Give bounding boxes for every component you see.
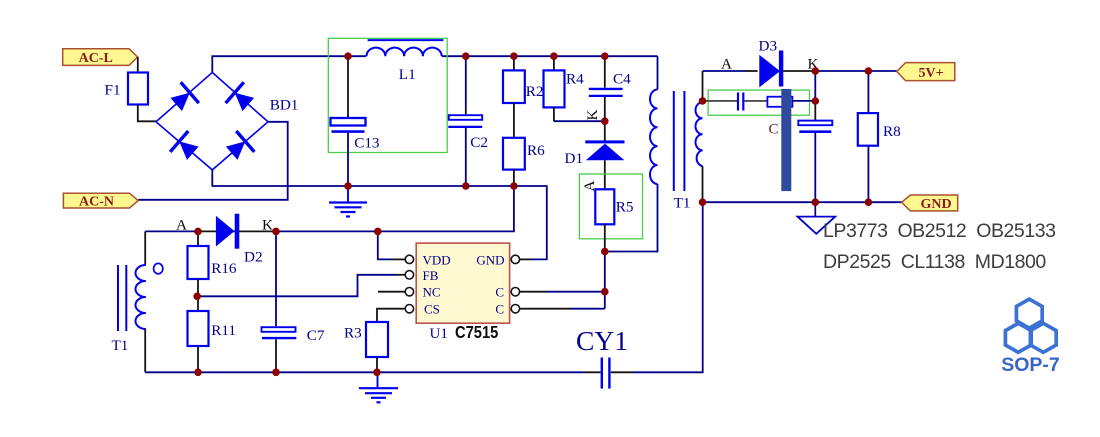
- wire R3 to bottom line: [376, 357, 378, 372]
- wire CY1 to secondary ground: [633, 202, 703, 372]
- svg-text:AC-N: AC-N: [79, 195, 114, 210]
- svg-text:R4: R4: [566, 71, 584, 88]
- aux transformer T1 winding: [136, 265, 146, 329]
- wire A-K line through D2: [198, 230, 276, 232]
- wire F1 to bridge left corner: [138, 105, 156, 122]
- ground symbol at C13: [329, 186, 367, 217]
- svg-text:R16: R16: [211, 260, 237, 277]
- wire C4 to node K: [604, 97, 606, 121]
- wire top bus L1 to transformer: [442, 55, 658, 57]
- node dot bottom C7: [272, 369, 280, 377]
- node dot K: [272, 228, 280, 236]
- resistor R6: [503, 138, 525, 170]
- wire R4 to node K: [553, 107, 555, 121]
- wire R6 to ground line: [513, 170, 515, 186]
- wire A node to R16: [197, 231, 199, 246]
- svg-text:F1: F1: [105, 82, 121, 99]
- pin circle C top: [511, 288, 519, 296]
- pin circle CS: [405, 305, 413, 313]
- node dot 5V K: [812, 67, 820, 75]
- node dot gnd-C2: [462, 182, 470, 190]
- svg-text:SOP-7: SOP-7: [1001, 354, 1060, 376]
- node dot gnd-R6: [510, 182, 518, 190]
- svg-text:BD1: BD1: [270, 97, 299, 114]
- svg-text:K: K: [584, 110, 601, 121]
- transformer T1 core: [674, 91, 685, 191]
- wire drain node to U1 C pins: [604, 252, 606, 309]
- node dot bus-R4: [550, 52, 558, 60]
- SOP-7 logo hexagon right: [1030, 323, 1056, 352]
- wire bridge bottom to primary ground line: [212, 170, 514, 186]
- ground symbol at R3: [359, 372, 398, 402]
- wire CS to R3: [377, 309, 405, 322]
- svg-text:C: C: [495, 285, 504, 300]
- wire R16 to R11 node: [197, 279, 199, 311]
- node dot FB divider: [193, 293, 201, 301]
- snubber wire middle: [744, 100, 767, 102]
- fuse F1: [128, 73, 148, 105]
- node dot drain: [601, 248, 609, 256]
- port AC-N: [63, 193, 138, 210]
- pin circle C bottom: [511, 305, 519, 313]
- transformer T1 secondary winding: [696, 102, 703, 166]
- svg-text:A: A: [721, 56, 732, 73]
- node dot bottom R3: [373, 369, 381, 377]
- wire D3 to 5V+: [783, 70, 815, 72]
- capacitor C7: [262, 327, 297, 338]
- wire bridge top to bus: [212, 56, 366, 72]
- resistor R4: [544, 70, 565, 107]
- output capacitor: [798, 121, 832, 132]
- resistor R2: [503, 70, 525, 103]
- pin circle GND: [511, 255, 519, 263]
- svg-text:C7: C7: [307, 327, 325, 344]
- node dot K D1: [601, 117, 609, 125]
- resistor R11: [188, 311, 209, 346]
- green box around R5: [579, 174, 642, 239]
- port 5V+: [897, 63, 955, 81]
- bottom ground line: [145, 371, 584, 373]
- svg-text:C4: C4: [613, 71, 631, 88]
- wire K node down to output cap: [814, 71, 816, 101]
- node dot A: [194, 228, 202, 236]
- resistor R5: [595, 189, 614, 224]
- svg-text:R6: R6: [527, 142, 545, 159]
- diode D2: [216, 214, 239, 249]
- svg-text:VDD: VDD: [423, 253, 451, 268]
- dark bar capacitor C: [781, 89, 791, 191]
- svg-text:GND: GND: [476, 253, 504, 268]
- resistor R3: [366, 322, 388, 357]
- svg-text:DP2525 CL1138 MD1800: DP2525 CL1138 MD1800: [823, 251, 1046, 273]
- capacitor C2: [448, 115, 482, 127]
- wire R5 to drain node: [604, 224, 606, 251]
- transformer T1 primary winding: [650, 90, 658, 185]
- node dot out gnd cap: [812, 198, 820, 206]
- svg-text:R11: R11: [211, 322, 236, 339]
- wire C2 to ground line: [465, 128, 467, 186]
- node dot bus-C4: [601, 52, 609, 60]
- svg-text:T1: T1: [112, 337, 129, 354]
- svg-text:NC: NC: [423, 285, 441, 300]
- wire output cap to ground line: [814, 133, 816, 202]
- diode D3: [759, 51, 783, 88]
- svg-text:C2: C2: [470, 134, 488, 151]
- wire ground line to node line (x=513.9): [276, 186, 514, 231]
- node dot gnd-C13: [344, 182, 352, 190]
- svg-text:D1: D1: [565, 150, 584, 167]
- bridge rectifier BD1 diamond: [156, 72, 268, 169]
- wire K node to C7: [275, 231, 277, 326]
- green box EMI filter: [328, 38, 447, 152]
- svg-text:CY1: CY1: [576, 325, 628, 356]
- node dot secondary top: [699, 97, 707, 105]
- node dot out gnd R8: [865, 198, 873, 206]
- svg-text:5V+: 5V+: [918, 66, 943, 81]
- SOP-7 logo hexagon left: [1005, 323, 1031, 352]
- node dot bottom R16: [194, 369, 202, 377]
- svg-text:FB: FB: [423, 268, 439, 283]
- wire VDD tap: [378, 231, 392, 259]
- capacitor C13: [331, 118, 366, 132]
- wire NC stub: [378, 291, 405, 293]
- svg-text:R2: R2: [526, 83, 544, 100]
- wire secondary bottom: [702, 166, 704, 202]
- bridge diode bottom-right: [223, 131, 255, 164]
- wire C pin bottom to drain: [519, 308, 570, 310]
- svg-text:D3: D3: [759, 38, 778, 55]
- wire primary top: [657, 56, 659, 89]
- wire AC-L to F1: [137, 57, 139, 73]
- svg-text:U1: U1: [430, 326, 448, 342]
- svg-text:CS: CS: [424, 302, 440, 317]
- wire secondary top: [702, 71, 704, 104]
- wire secondary to D3: [703, 70, 746, 72]
- svg-text:D2: D2: [244, 249, 263, 266]
- node dot drain C pin: [601, 288, 609, 296]
- pin circle FB: [405, 271, 413, 279]
- wire A node to aux transformer: [145, 230, 198, 232]
- wire bus to C2: [465, 56, 467, 108]
- svg-text:C: C: [769, 122, 779, 138]
- resistor R16: [188, 246, 209, 279]
- node dot snubber right: [812, 97, 820, 105]
- wire primary bottom to drain: [605, 184, 658, 252]
- capacitor CY1: [584, 358, 633, 389]
- svg-text:T1: T1: [674, 195, 691, 212]
- svg-text:R3: R3: [344, 325, 362, 342]
- bridge diode bottom-left: [170, 131, 202, 164]
- snubber wire left: [703, 100, 738, 102]
- wire node K to D1: [604, 121, 606, 140]
- svg-text:GND: GND: [920, 197, 951, 212]
- node dot bus-C13: [344, 52, 352, 60]
- bridge diode top-right: [226, 82, 258, 115]
- wire 5V+ to R8: [867, 71, 869, 113]
- svg-text:C7515: C7515: [455, 323, 498, 342]
- wire C pin top to drain: [519, 291, 546, 293]
- svg-text:R5: R5: [616, 199, 634, 216]
- wire FB path: [198, 275, 396, 297]
- wire R2 to R6: [513, 103, 515, 138]
- wire D1 to R5: [604, 160, 606, 189]
- IC U1 body: [416, 243, 509, 323]
- wire R8 to ground line: [867, 146, 869, 203]
- wire R11 to bottom line: [197, 346, 199, 372]
- snubber wire right: [792, 100, 815, 102]
- pin circle VDD: [405, 255, 413, 263]
- node dot bus-R2: [510, 52, 518, 60]
- wire bus to R4: [553, 56, 555, 70]
- ground arrow at output: [798, 202, 836, 234]
- wire bus to R2: [513, 56, 515, 70]
- pin circle NC: [405, 288, 413, 296]
- snubber capacitor: [738, 93, 743, 111]
- wire C13 to ground line: [347, 133, 349, 186]
- wire bus to C4: [604, 56, 606, 87]
- node dot bus-C2: [462, 52, 470, 60]
- wire bus to C13: [347, 56, 349, 118]
- capacitor C4: [589, 89, 623, 96]
- svg-text:C13: C13: [354, 135, 379, 152]
- wire secondary ground line: [703, 201, 902, 203]
- svg-text:AC-L: AC-L: [79, 51, 113, 66]
- diode D1: [585, 140, 624, 160]
- wire ground line to U1 GND pin: [514, 186, 547, 259]
- node dot R8 top: [865, 67, 873, 75]
- svg-text:L1: L1: [399, 66, 416, 83]
- wire bridge right to AC-N line: [138, 122, 288, 200]
- inductor L1: [367, 40, 444, 56]
- snubber green box: [708, 90, 809, 115]
- svg-text:C: C: [495, 302, 504, 317]
- aux transformer phase dot: [154, 263, 163, 273]
- svg-text:K: K: [262, 217, 273, 234]
- wire aux transformer bottom: [144, 329, 146, 372]
- snubber resistor: [767, 97, 792, 107]
- bridge diode top-left: [167, 82, 199, 115]
- port AC-L: [63, 49, 138, 66]
- aux transformer T1 core: [118, 265, 126, 331]
- node dot secondary bottom: [699, 198, 707, 206]
- port GND: [902, 195, 958, 212]
- svg-text:LP3773 OB2512 OB25133: LP3773 OB2512 OB25133: [823, 220, 1056, 242]
- SOP-7 logo hexagon top: [1016, 299, 1042, 328]
- resistor R8: [858, 113, 878, 146]
- node dot VDD tap: [374, 228, 382, 236]
- wire C7 to bottom line: [275, 339, 277, 372]
- svg-text:R8: R8: [883, 123, 901, 140]
